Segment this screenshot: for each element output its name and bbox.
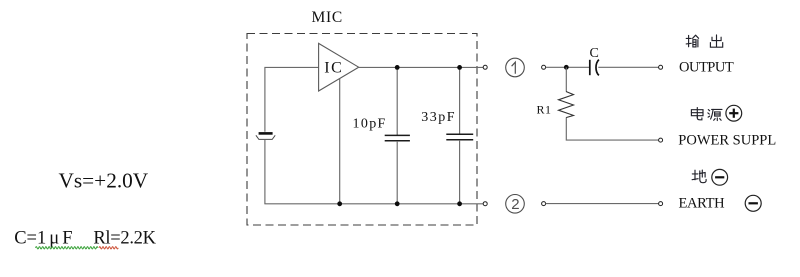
capacitor C curved plate	[596, 60, 599, 76]
wire: node 1 to capacitor C	[546, 66, 589, 68]
chinese label di (earth)	[692, 170, 706, 183]
wire: bottom rail	[264, 203, 483, 205]
svg-text:C: C	[590, 46, 599, 61]
terminal circle: EARTH	[659, 202, 663, 206]
capacitor 10pF lower lead	[396, 141, 398, 204]
op-amp U1 triangle	[319, 43, 359, 91]
chinese label shu (output)	[686, 35, 698, 47]
power plus symbol	[726, 105, 742, 121]
svg-text:Vs=+2.0V: Vs=+2.0V	[59, 168, 149, 192]
junction dot top rail / 10pF	[395, 65, 400, 70]
terminal circle: node 1 input	[542, 65, 546, 69]
junction dot bottom rail / 33pF	[457, 201, 462, 206]
svg-text:EARTH: EARTH	[679, 196, 726, 212]
earth minus symbol (chinese row)	[712, 169, 728, 185]
resistor R1 upper lead	[565, 67, 567, 91]
chinese label dian (power)	[691, 108, 703, 120]
wire: op-amp ground lead down to bottom rail	[339, 79, 341, 204]
svg-text:2: 2	[511, 196, 519, 213]
electret mic capsule MK1 curved cup	[256, 135, 275, 139]
wire: op-amp output top rail to terminal	[359, 66, 484, 68]
wire: capacitor C to OUTPUT terminal	[598, 66, 658, 68]
wire: top rail left segment (mic to op-amp input)	[265, 67, 319, 131]
svg-text:OUTPUT: OUTPUT	[679, 60, 734, 76]
earth minus symbol (latin row)	[745, 195, 761, 211]
chinese label chu (output)	[710, 35, 722, 47]
junction node A (R1 / C)	[564, 65, 569, 70]
terminal circle: POWER SUPPLY	[659, 138, 663, 142]
svg-text:MIC: MIC	[312, 9, 343, 26]
resistor R1 zigzag	[559, 92, 574, 118]
svg-text:POWER SUPPL: POWER SUPPL	[678, 132, 776, 148]
wire: earth line	[546, 203, 659, 205]
svg-text:IC: IC	[324, 60, 343, 77]
wire: mic capsule down to bottom rail	[264, 139, 266, 203]
svg-text:F: F	[62, 229, 72, 249]
electret mic capsule MK1 top plate	[259, 132, 273, 135]
svg-text:Rl=2.2K: Rl=2.2K	[93, 229, 156, 249]
capacitor 10pF plates	[385, 134, 410, 136]
junction dot bottom rail / op-amp lead	[337, 201, 342, 206]
chinese label yuan (power source)	[708, 109, 722, 120]
svg-text:C=1: C=1	[14, 229, 46, 249]
pin number 1	[506, 58, 525, 77]
svg-text:R1: R1	[537, 103, 552, 117]
svg-text:10pF: 10pF	[353, 116, 387, 131]
junction dot bottom rail / 10pF	[395, 201, 400, 206]
terminal circle: MIC ground node	[483, 202, 487, 206]
capacitor 33pF lower lead	[459, 140, 461, 204]
capacitor 33pF upper lead	[459, 67, 461, 134]
green squiggle underline	[36, 247, 98, 249]
svg-text:μ: μ	[49, 229, 59, 249]
terminal circle: OUTPUT	[659, 65, 663, 69]
capacitor C straight plate	[589, 60, 591, 75]
MIC enclosure dashed box	[247, 34, 477, 226]
svg-text:33pF: 33pF	[421, 110, 456, 125]
capacitor 10pF upper lead	[396, 67, 398, 135]
terminal circle: MIC output node	[483, 65, 487, 69]
junction dot top rail / 33pF	[457, 65, 462, 70]
pin number 2	[506, 195, 525, 214]
terminal circle: node 2 input	[542, 202, 546, 206]
wire: R1 down and right to POWER SUPPLY terminal	[566, 118, 658, 141]
red squiggle underline	[99, 247, 118, 249]
capacitor 33pF plates	[446, 133, 473, 135]
